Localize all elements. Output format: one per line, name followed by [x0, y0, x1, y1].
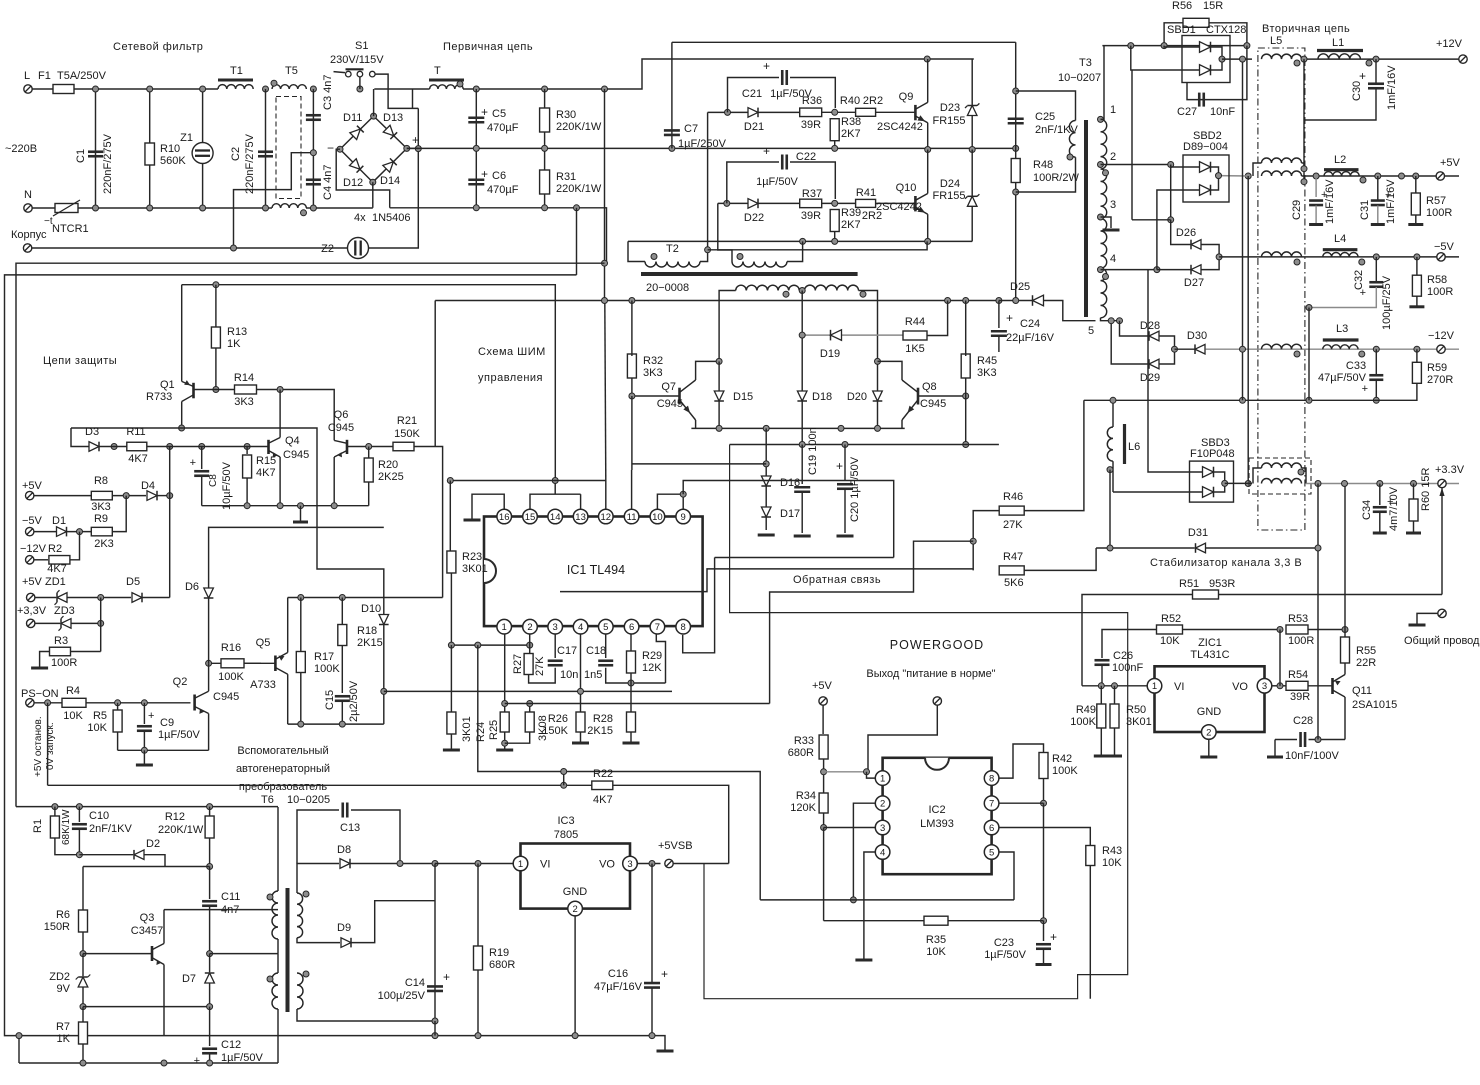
svg-text:D5: D5: [126, 576, 140, 588]
L5 winding -12V: [1262, 344, 1302, 349]
wire R60: [1413, 484, 1415, 500]
w5u dots: [1301, 166, 1307, 172]
svg-text:Q6: Q6: [334, 409, 349, 421]
svg-text:39R: 39R: [1290, 691, 1310, 703]
svg-text:D8: D8: [337, 844, 351, 856]
svg-text:R43: R43: [1102, 845, 1122, 857]
capacitor C22: [781, 155, 784, 170]
svg-text:100K: 100K: [218, 671, 244, 683]
wire q3 em: [163, 965, 165, 1036]
svg-text:Сетевой фильтр: Сетевой фильтр: [113, 41, 203, 53]
svg-text:R16: R16: [221, 642, 241, 654]
svg-text:C20 1µF/50V: C20 1µF/50V: [849, 456, 861, 522]
wire R15 bot: [246, 478, 248, 506]
wire pin8 row: [999, 744, 1044, 778]
wire R22 right: [613, 785, 729, 863]
wire row428 to base row: [71, 428, 89, 447]
pin 15: [523, 509, 538, 524]
wire R35 right: [948, 920, 1044, 922]
+5 dots: [1375, 173, 1381, 179]
wire pin11 feed: [631, 470, 633, 509]
resistor R28: [627, 712, 636, 732]
svg-text:C10: C10: [89, 810, 109, 822]
wire R51 left: [1082, 595, 1193, 686]
svg-text:R9: R9: [94, 513, 108, 525]
wire pson to R22: [47, 703, 49, 786]
resistor R35: [924, 916, 948, 925]
diode D11: [350, 126, 364, 140]
wire t6 p1 top: [277, 807, 279, 891]
wire R56 right: [1209, 23, 1247, 46]
wire SBD2 in2: [1157, 190, 1200, 270]
wire Q9 emitter: [927, 123, 929, 150]
svg-text:1µF/250V: 1µF/250V: [678, 138, 727, 150]
wire drive mid: [835, 147, 1016, 149]
wire C20 col: [844, 445, 846, 482]
wire C25 column: [1015, 42, 1017, 300]
pin 1 VI: [1147, 679, 1162, 694]
svg-text:953R: 953R: [1209, 578, 1235, 590]
svg-text:D26: D26: [1176, 227, 1196, 239]
wire R41 to Q10: [876, 202, 916, 204]
diode D31: [1196, 543, 1206, 553]
svg-text:10nF/100V: 10nF/100V: [1285, 750, 1339, 762]
diode D27: [1191, 265, 1201, 275]
svg-text:100R: 100R: [51, 657, 77, 669]
pin 2: [523, 619, 538, 634]
ground pin4: [855, 959, 872, 962]
wire aux bottom row: [19, 1062, 278, 1064]
wire R60 bot: [1413, 521, 1415, 533]
svg-text:13: 13: [575, 512, 586, 523]
svg-text:+: +: [763, 144, 770, 158]
resistor R21: [393, 442, 414, 451]
wire row444: [730, 444, 999, 446]
wire D31 right: [1206, 484, 1318, 549]
svg-text:C23: C23: [994, 937, 1014, 949]
wire +5 in: [34, 495, 91, 497]
svg-text:Общий провод: Общий провод: [1404, 635, 1480, 647]
dual schottky SBD1: [1182, 36, 1230, 83]
wire C32 bot: [1309, 287, 1376, 308]
wire R59: [1416, 349, 1418, 362]
svg-text:20−0008: 20−0008: [646, 282, 689, 294]
wire r17 bot: [300, 673, 302, 725]
svg-text:100nF: 100nF: [1112, 662, 1143, 674]
T3 core: [1084, 120, 1088, 317]
svg-text:R35: R35: [926, 934, 946, 946]
junction dots dc rail: [473, 86, 479, 92]
wire VO to R53: [1279, 630, 1281, 686]
ground Q2: [136, 764, 153, 767]
svg-text:R41: R41: [856, 187, 876, 199]
wire R37 to node: [822, 202, 856, 204]
diode D10: [379, 615, 389, 625]
resistor R18: [338, 625, 347, 646]
wire D26 right: [1202, 245, 1220, 257]
wire d8 right: [350, 863, 435, 865]
wire d6 col: [208, 598, 210, 663]
wire C34: [1379, 484, 1381, 506]
svg-text:2SC4242: 2SC4242: [877, 121, 923, 133]
svg-text:27K: 27K: [1003, 519, 1023, 531]
svg-text:D3: D3: [85, 426, 99, 438]
capacitor C5: [468, 116, 484, 119]
wire r3 right: [71, 651, 101, 653]
wire D4 col: [169, 447, 171, 598]
capacitor C31: [1371, 199, 1385, 202]
svg-text:R59: R59: [1427, 362, 1447, 374]
svg-text:−12V: −12V: [20, 543, 47, 555]
svg-text:R23: R23: [462, 551, 482, 563]
wire pin7 hook: [656, 634, 665, 683]
svg-text:Т6: Т6: [261, 794, 274, 806]
wire SBD1 in1: [1164, 46, 1199, 47]
transistor Q10: [914, 196, 917, 211]
svg-text:C14: C14: [405, 977, 425, 989]
wire C8 top: [201, 447, 203, 470]
svg-text:автогенераторный: автогенераторный: [236, 763, 330, 775]
pin 11: [624, 509, 639, 524]
pin 13: [573, 509, 588, 524]
wire R52 right: [1183, 629, 1281, 631]
resistor R34: [819, 793, 828, 813]
wire C31: [1377, 176, 1379, 200]
capacitor C30: [1368, 82, 1384, 85]
wire Q7 collector: [696, 361, 720, 380]
resistor R56: [1183, 18, 1209, 27]
wire 3.3 rail: [1306, 483, 1459, 485]
wire R47 right: [1024, 548, 1096, 570]
svg-text:+5V: +5V: [22, 576, 43, 588]
wire R15 top: [246, 447, 248, 455]
wire v1304: [1303, 59, 1305, 170]
choke L5 dashed box: [1258, 48, 1305, 530]
svg-text:+: +: [412, 133, 419, 147]
svg-text:1: 1: [502, 622, 507, 633]
ground C19: [794, 535, 811, 538]
inductor L6: [1107, 427, 1113, 461]
svg-text:R19: R19: [489, 947, 509, 959]
wire C24 bot: [998, 336, 1000, 352]
wire aux row up: [18, 1036, 20, 1063]
svg-text:Q1: Q1: [160, 379, 175, 391]
wire c14 link: [434, 1021, 436, 1036]
svg-text:3: 3: [1110, 199, 1116, 211]
pin 2 GND: [568, 901, 583, 916]
wire aux top row: [16, 806, 278, 808]
svg-text:4: 4: [578, 622, 583, 633]
wire prot gnd row: [202, 505, 369, 507]
wire R33 bot: [823, 759, 825, 793]
wire top rail: [74, 88, 218, 90]
svg-text:100K: 100K: [314, 663, 340, 675]
svg-text:R57: R57: [1426, 195, 1446, 207]
svg-text:C12: C12: [221, 1039, 241, 1051]
wire R57 bot: [1415, 215, 1417, 225]
wire R20 top: [368, 447, 370, 459]
wire C33 bot: [1375, 380, 1377, 400]
svg-text:IC3: IC3: [557, 815, 574, 827]
ground common: [1409, 624, 1426, 627]
pson dots: [45, 700, 51, 706]
svg-text:150R: 150R: [44, 921, 70, 933]
svg-text:R18: R18: [357, 625, 377, 637]
wire common: [1417, 613, 1438, 624]
wire row428: [71, 428, 384, 576]
wire C24 col: [998, 301, 1000, 329]
d8 dots: [397, 861, 403, 867]
wire 5vsb to R22: [673, 863, 729, 865]
wire R8 right: [112, 495, 146, 497]
svg-text:VI: VI: [1174, 681, 1184, 693]
wire top rail 2: [374, 88, 429, 90]
svg-text:D89−004: D89−004: [1183, 141, 1228, 153]
diode D13: [383, 125, 397, 139]
transformer T6: [286, 888, 290, 1012]
svg-text:Вторичная цепь: Вторичная цепь: [1262, 23, 1350, 35]
wire R13: [215, 285, 217, 328]
ground 5VSB: [657, 1050, 674, 1053]
wire C32: [1375, 257, 1377, 282]
resistor 3K08: [525, 712, 534, 732]
svg-text:R33: R33: [794, 735, 814, 747]
wire bottom rail N: [78, 207, 272, 209]
wire pin10 bracket: [657, 494, 683, 509]
wire D23 column: [971, 59, 973, 150]
wire C27: [1187, 46, 1247, 100]
wire 3k08 bot: [505, 732, 530, 743]
svg-text:+: +: [763, 59, 770, 73]
L5 winding 3.3V lower: [1262, 479, 1302, 484]
svg-text:100K: 100K: [1052, 765, 1078, 777]
svg-text:C25: C25: [1035, 111, 1055, 123]
resistor R19: [474, 946, 483, 970]
wire c13 row: [297, 810, 339, 864]
-12 dots: [1373, 346, 1379, 352]
svg-text:10n: 10n: [560, 669, 578, 681]
svg-text:2K7: 2K7: [841, 128, 861, 140]
svg-text:2K15: 2K15: [587, 725, 613, 737]
wire S1 right: [375, 74, 418, 108]
svg-text:PS−ON: PS−ON: [21, 688, 59, 700]
svg-text:L5: L5: [1270, 35, 1282, 47]
wire Q10 collector: [927, 150, 929, 194]
3.3V winding small dashed box: [1249, 458, 1311, 494]
wire Q1 base: [194, 389, 235, 391]
capacitor C6: [468, 178, 484, 181]
terminal +5V pg: [819, 697, 827, 705]
wire row691: [384, 690, 672, 692]
wire v1345: [1344, 484, 1346, 630]
svg-text:NTCR1: NTCR1: [52, 223, 89, 235]
svg-text:2: 2: [880, 799, 885, 810]
svg-text:270R: 270R: [1427, 374, 1453, 386]
wire chassis: [32, 247, 348, 249]
pin 8: [676, 619, 691, 634]
capacitor C10: [72, 823, 87, 826]
capacitor C24: [991, 330, 1007, 333]
wire C26 bot: [1101, 665, 1103, 686]
wire R19 col: [477, 864, 479, 947]
svg-text:39R: 39R: [801, 119, 821, 131]
pin 3 VO: [623, 856, 638, 871]
svg-text:Q5: Q5: [256, 637, 271, 649]
wire d10 bot: [383, 625, 385, 725]
wire C23 col: [1043, 921, 1045, 941]
svg-text:R29: R29: [642, 650, 662, 662]
svg-text:R6: R6: [56, 909, 70, 921]
svg-text:1K: 1K: [227, 338, 241, 350]
diode D9: [341, 938, 351, 948]
wire prot rail: [182, 285, 556, 481]
wire C3: [312, 89, 314, 153]
svg-text:VO: VO: [599, 859, 615, 871]
ground R50: [1107, 755, 1122, 758]
wire R59 bot: [1243, 383, 1417, 400]
wire pin15 bracket: [530, 494, 581, 509]
capacitor C28: [1299, 732, 1302, 747]
svg-text:IC2: IC2: [928, 804, 945, 816]
pin 5: [599, 619, 614, 634]
wire t6 s mid: [297, 938, 340, 943]
svg-text:100R: 100R: [1288, 635, 1314, 647]
svg-text:C945: C945: [920, 398, 946, 410]
diode D22: [748, 199, 758, 209]
terminal +3.3V: [1438, 479, 1446, 487]
diode D28: [1149, 331, 1159, 341]
svg-text:R45: R45: [977, 355, 997, 367]
L5 winding -5V: [1262, 252, 1302, 257]
wire VI row: [1082, 685, 1148, 687]
svg-text:0V запуск.: 0V запуск.: [45, 722, 56, 770]
svg-text:D29: D29: [1140, 372, 1160, 384]
wire center tap down: [801, 291, 803, 392]
svg-text:1N5406: 1N5406: [372, 212, 411, 224]
wire pson row: [34, 702, 62, 704]
ground R25: [496, 749, 513, 752]
svg-text:F10P048: F10P048: [1190, 448, 1235, 460]
resistor R23: [447, 551, 456, 573]
resistor R13: [211, 327, 220, 348]
wire D4 right: [157, 495, 170, 497]
svg-text:GND: GND: [563, 886, 588, 898]
ground D17: [758, 534, 775, 537]
svg-text:CTX128: CTX128: [1206, 24, 1246, 36]
resistor R40: [856, 108, 876, 116]
svg-text:+: +: [661, 967, 668, 981]
wire r12 bot: [209, 838, 211, 867]
svg-text:1µF/50V: 1µF/50V: [756, 176, 798, 188]
svg-text:+: +: [1006, 311, 1013, 325]
wire pin1 col: [504, 634, 506, 713]
svg-text:10K: 10K: [87, 722, 107, 734]
capacitor C26: [1095, 659, 1110, 662]
wire C33: [1375, 349, 1377, 375]
terminal +5V: [1436, 172, 1444, 180]
wire R36 to node: [822, 111, 856, 113]
wire R45 col: [965, 301, 967, 357]
svg-text:R54: R54: [1288, 669, 1308, 681]
wire row868b: [82, 867, 84, 902]
wire D20 col: [877, 361, 879, 428]
terminal -5V prot: [26, 527, 34, 535]
svg-text:220K/1W: 220K/1W: [556, 121, 602, 133]
wire r12 col: [209, 807, 211, 816]
wire pin3 row: [824, 827, 876, 829]
svg-text:100R: 100R: [1426, 207, 1452, 219]
wire R22 tap: [563, 772, 565, 786]
svg-text:9: 9: [681, 512, 686, 523]
svg-text:100R/2W: 100R/2W: [1033, 172, 1079, 184]
wire R28 bot: [630, 732, 632, 742]
svg-text:D18: D18: [812, 391, 832, 403]
wire SBD2 out: [1211, 167, 1219, 190]
diode D23: [967, 106, 977, 116]
resistor R54: [1286, 681, 1308, 690]
svg-text:6: 6: [629, 622, 634, 633]
svg-text:10−0207: 10−0207: [1058, 72, 1101, 84]
svg-text:IC1 TL494: IC1 TL494: [567, 563, 625, 577]
wire Q10 emitter: [927, 214, 929, 241]
wire pin3 col: [554, 634, 556, 658]
svg-text:Стабилизатор канала 3,3 В: Стабилизатор канала 3,3 В: [1150, 557, 1302, 569]
svg-text:C30: C30: [1351, 81, 1363, 101]
wire 7805 in: [435, 863, 513, 865]
svg-text:C11: C11: [221, 891, 240, 903]
svg-text:Первичная цепь: Первичная цепь: [443, 41, 533, 53]
wire Q4 coll: [279, 390, 281, 438]
svg-text:L4: L4: [1334, 233, 1346, 245]
svg-text:3K01: 3K01: [461, 716, 473, 742]
T4 secondary winding b: [805, 285, 859, 290]
svg-text:S1: S1: [355, 40, 368, 52]
wire R54 right: [1308, 685, 1333, 687]
powergood border wire loop: [704, 445, 1128, 999]
resistor R15: [243, 455, 252, 478]
ground C23: [1036, 963, 1052, 966]
wire c10 col: [78, 807, 80, 822]
svg-text:9V: 9V: [57, 983, 71, 995]
svg-text:C7: C7: [684, 123, 698, 135]
pin 8: [984, 771, 999, 786]
svg-text:~220B: ~220B: [5, 143, 37, 155]
svg-text:C21: C21: [742, 88, 762, 100]
pin 6: [984, 820, 999, 835]
svg-text:3K3: 3K3: [643, 367, 663, 379]
wire L6 mid tap: [1109, 470, 1111, 548]
wire q2 coll: [208, 663, 210, 691]
resistor R5: [113, 710, 122, 732]
wire C25 loop bottom: [1016, 157, 1076, 192]
svg-text:8: 8: [989, 774, 994, 785]
wire tap2: [1101, 164, 1171, 166]
svg-text:680R: 680R: [788, 747, 814, 759]
svg-text:14: 14: [550, 512, 561, 523]
wire r17 col: [300, 598, 302, 652]
ground C20: [837, 535, 854, 538]
wire r16 row: [209, 662, 261, 664]
capacitor C2: [258, 150, 273, 153]
ground R24: [443, 749, 460, 752]
svg-text:управления: управления: [478, 372, 543, 384]
svg-text:11: 11: [627, 512, 637, 523]
svg-text:T2: T2: [666, 243, 679, 255]
wire C8 bot: [201, 476, 203, 506]
svg-text:C28: C28: [1293, 715, 1313, 727]
wire rail to S1 path: [412, 89, 414, 108]
wire c9 col: [143, 703, 145, 724]
